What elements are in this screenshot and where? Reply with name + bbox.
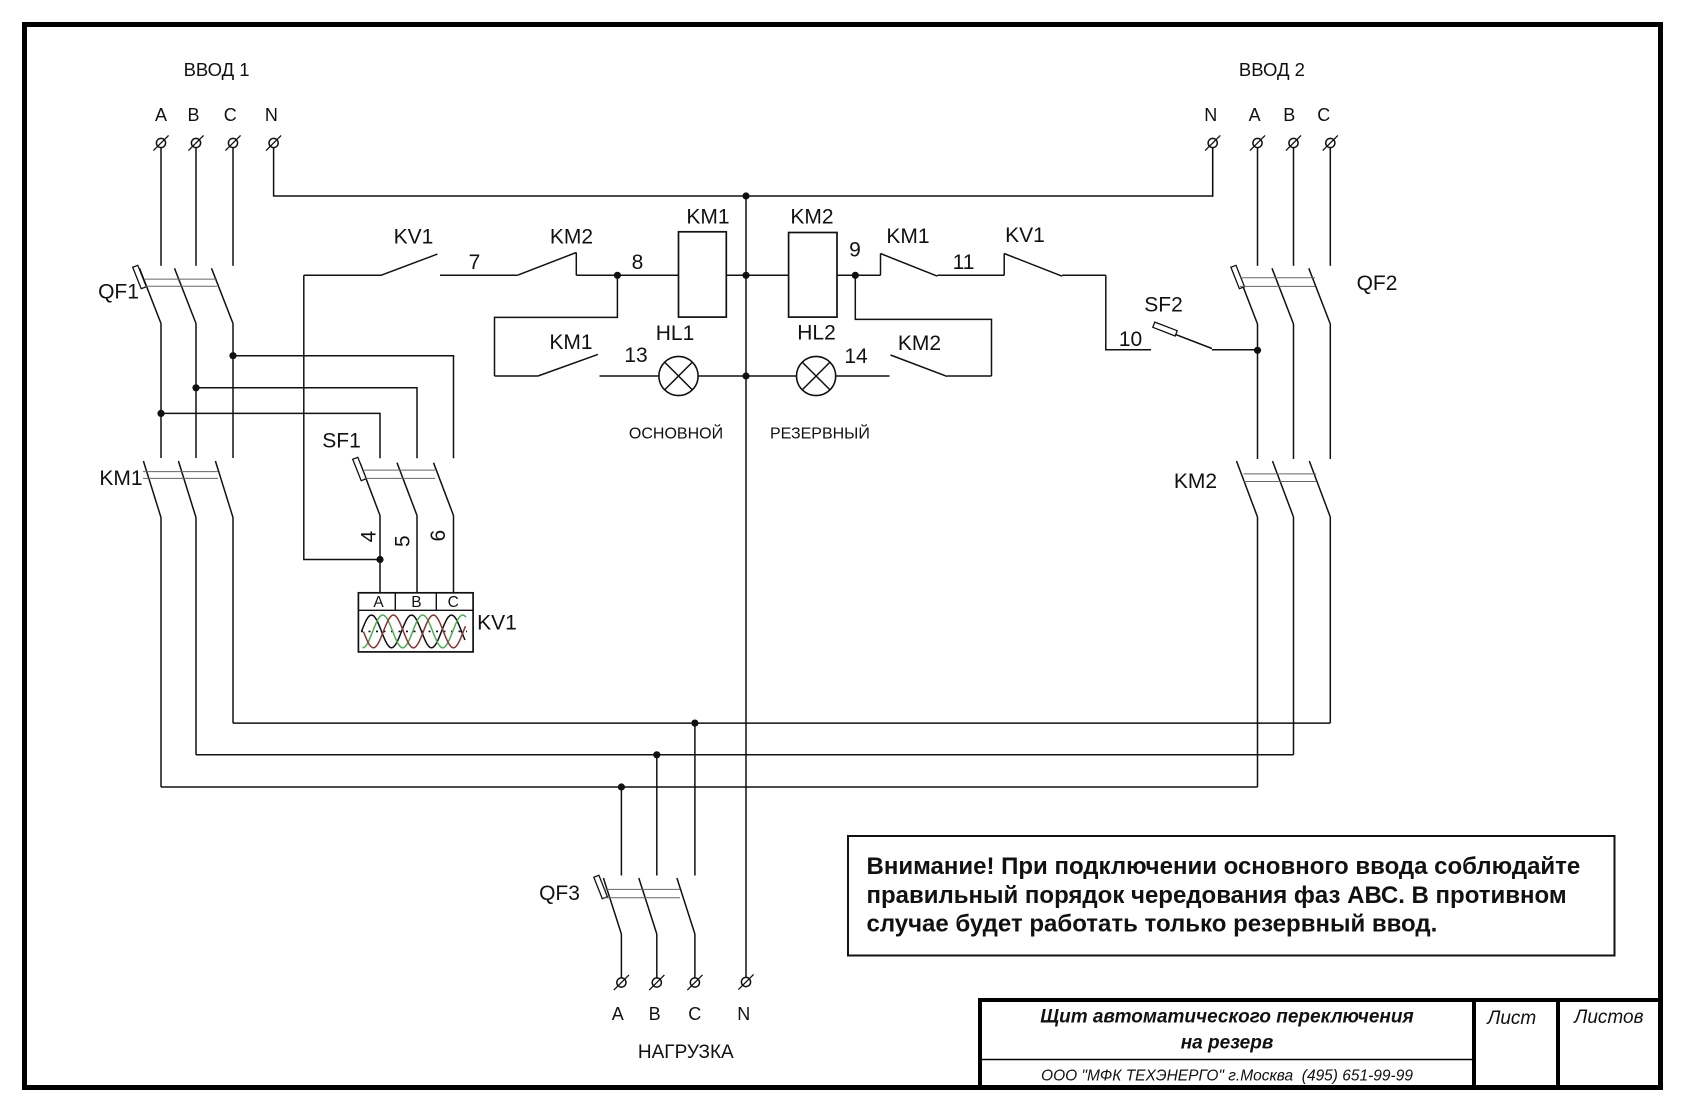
junction lamp row / N riser: [742, 372, 749, 379]
wire tap C to SF1 pole6: [233, 356, 454, 459]
svg-text:SF1: SF1: [322, 430, 361, 453]
svg-text:С: С: [448, 594, 459, 611]
svg-text:8: 8: [632, 251, 644, 274]
wire KM2-C down: [1329, 517, 1331, 723]
junction coil row / N riser: [742, 272, 749, 279]
svg-text:НАГРУЗКА: НАГРУЗКА: [638, 1042, 734, 1063]
wire tap A to SF1 pole4: [161, 413, 380, 458]
svg-text:KM2: KM2: [550, 226, 593, 249]
svg-text:KM1: KM1: [686, 206, 729, 229]
wire VVOD1-C to QF1: [232, 148, 234, 266]
wire KM2 coil to node 9: [837, 274, 881, 276]
junction QF1-A tap: [157, 410, 164, 417]
svg-text:правильный порядок чередования: правильный порядок чередования фаз АВС. …: [867, 882, 1567, 909]
wire neutral bus N: [274, 148, 1213, 196]
terminal VVOD1-B: [188, 135, 203, 150]
wire KM2-A down: [1257, 517, 1259, 787]
wire QF3-A to load: [620, 934, 622, 978]
contactor contact KM1 (NO, lamp HL1, node 13): [495, 354, 659, 376]
svg-text:KV1: KV1: [394, 226, 434, 249]
phase control relay KV1 box: [358, 593, 473, 652]
wire HL1 to HL2: [698, 375, 796, 377]
wire VVOD1-A to QF1: [160, 148, 162, 266]
svg-text:9: 9: [849, 239, 861, 262]
wire KM1 coil to N riser: [726, 274, 788, 276]
terminal VVOD2-A: [1250, 135, 1265, 150]
pin number 4: [358, 530, 381, 542]
svg-text:N: N: [737, 1004, 750, 1024]
junction bus B / QF3: [653, 751, 660, 758]
wire KM1-C down: [232, 518, 234, 724]
svg-text:QF2: QF2: [1357, 272, 1398, 295]
wire N riser (bus to load): [745, 196, 747, 977]
junction bus C / QF3: [691, 720, 698, 727]
circuit breaker QF3: [594, 875, 695, 934]
relay contact KV1 (NO, node 7): [304, 254, 518, 275]
contactor KM1 main contacts: [143, 461, 233, 518]
wire QF3-B to load: [656, 934, 658, 978]
wire VVOD2-A to QF2: [1257, 148, 1259, 266]
wire KM1-B down: [195, 518, 197, 755]
phase labels VVOD1 A B C N: [155, 105, 278, 125]
node 8 junction: [614, 272, 621, 279]
wire SF1 pole4 to KV1 box: [379, 516, 381, 593]
KV1 waveform axis: [361, 630, 467, 632]
contactor contact KM2 (NC): [517, 253, 617, 276]
wire QF1-A down: [160, 324, 162, 459]
svg-text:11: 11: [953, 251, 975, 274]
wire load bus C: [233, 722, 1330, 724]
junction SF1 pole4 / KV1 feed: [376, 556, 383, 563]
terminal load N: [738, 974, 753, 989]
svg-text:B: B: [649, 1004, 661, 1024]
svg-text:A: A: [612, 1004, 624, 1024]
svg-text:ВВОД 1: ВВОД 1: [184, 59, 250, 80]
wire QF3-B feed: [656, 755, 658, 876]
svg-text:ООО "МФК ТЕХЭНЕРГО" г.Москва: ООО "МФК ТЕХЭНЕРГО" г.Москва (495) 651-9…: [1041, 1068, 1413, 1085]
warning note box: [848, 836, 1615, 956]
svg-text:B: B: [1283, 105, 1295, 125]
terminal VVOD2-N: [1205, 135, 1220, 150]
pin number 5: [391, 535, 414, 547]
KV1 box terminals A B C: [373, 594, 458, 611]
wire QF1-C down: [232, 324, 234, 459]
KV1 waveform phase A (black): [362, 615, 466, 648]
wire QF3-A feed: [620, 787, 622, 876]
contactor contact KM2 (NO, lamp HL2, mirrored): [891, 355, 992, 376]
terminal load C: [687, 975, 702, 990]
relay contact KV1 (NC, mirrored): [1004, 254, 1106, 277]
svg-text:14: 14: [844, 345, 868, 368]
svg-text:C: C: [688, 1004, 701, 1024]
wire VVOD1-B to QF1: [195, 148, 197, 266]
coil KM1: [679, 232, 727, 317]
svg-text:N: N: [265, 105, 278, 125]
title block: [978, 998, 1661, 1088]
svg-text:KM2: KM2: [898, 332, 941, 355]
wire tap B to SF1 pole5: [196, 388, 417, 458]
wire QF1-B down: [195, 324, 197, 459]
svg-text:А: А: [373, 594, 384, 611]
svg-text:10: 10: [1119, 328, 1142, 351]
coil KM2: [789, 233, 837, 318]
svg-text:РЕЗЕРВНЫЙ: РЕЗЕРВНЫЙ: [770, 424, 870, 443]
svg-text:В: В: [411, 594, 421, 611]
svg-text:4: 4: [358, 530, 381, 542]
circuit breaker SF1: [353, 457, 454, 515]
svg-text:KM2: KM2: [790, 206, 833, 229]
junction QF1-B tap: [192, 384, 199, 391]
lamp HL1: [659, 356, 698, 395]
svg-text:Листов: Листов: [1572, 1007, 1643, 1028]
svg-text:ОСНОВНОЙ: ОСНОВНОЙ: [629, 424, 723, 443]
lamp HL2: [797, 356, 836, 395]
wire KM1-A down: [160, 518, 162, 788]
svg-text:KM1: KM1: [99, 467, 142, 490]
wire node8 to lamp branch: [495, 275, 618, 376]
svg-text:HL1: HL1: [656, 322, 695, 345]
wire load bus A: [161, 786, 1258, 788]
wire QF2-C down: [1329, 324, 1331, 459]
wire QF2-B down: [1293, 324, 1295, 459]
wire node8 to KM1 coil: [617, 274, 678, 276]
KV1 waveform phase C (red): [364, 615, 466, 648]
svg-text:KV1: KV1: [1005, 224, 1045, 247]
svg-text:Внимание! При подключении осно: Внимание! При подключении основного ввод…: [867, 853, 1581, 880]
svg-text:KM1: KM1: [886, 225, 929, 248]
svg-text:13: 13: [624, 344, 647, 367]
wire VVOD2-C to QF2: [1329, 148, 1331, 266]
wire load bus B: [196, 754, 1294, 756]
KV1 waveform phase B (green): [363, 615, 467, 648]
svg-text:B: B: [187, 105, 199, 125]
svg-text:на резерв: на резерв: [1181, 1033, 1274, 1054]
svg-text:SF2: SF2: [1144, 294, 1183, 317]
svg-text:A: A: [1249, 105, 1261, 125]
svg-text:Лист: Лист: [1485, 1008, 1536, 1029]
terminal load A: [614, 975, 629, 990]
contactor contact KM1 (NC, mirrored): [881, 254, 1005, 277]
terminal load B: [649, 975, 664, 990]
wire KM2-B down: [1293, 517, 1295, 755]
svg-text:ВВОД 2: ВВОД 2: [1239, 59, 1305, 80]
junction N-bus / N-riser: [742, 192, 749, 199]
terminal VVOD1-C: [225, 135, 240, 150]
wire SF1 pole5 to KV1 box: [416, 516, 418, 593]
breaker SF2 (single pole): [1153, 322, 1258, 350]
svg-text:C: C: [1317, 105, 1330, 125]
wire QF2-A down: [1257, 324, 1259, 459]
circuit breaker QF1: [133, 265, 233, 323]
wire QF3-C feed: [694, 723, 696, 875]
wire lamp branch to node 9: [855, 275, 991, 376]
svg-text:HL2: HL2: [797, 322, 836, 345]
pin number 6: [427, 530, 450, 542]
contactor KM2 main contacts: [1237, 461, 1331, 517]
svg-text:QF1: QF1: [98, 281, 139, 304]
wire VVOD2-N down to bus: [1212, 148, 1214, 197]
svg-text:N: N: [1204, 105, 1217, 125]
svg-text:QF3: QF3: [539, 882, 580, 905]
svg-text:случае будет работать только р: случае будет работать только резервный в…: [867, 911, 1438, 938]
svg-text:KV1: KV1: [477, 612, 517, 635]
circuit breaker QF2: [1231, 265, 1330, 324]
wire KV1 contact feed (down-left column): [304, 275, 380, 559]
svg-text:7: 7: [469, 251, 481, 274]
terminal VVOD2-B: [1286, 135, 1301, 150]
svg-text:5: 5: [391, 535, 414, 547]
svg-text:A: A: [155, 105, 167, 125]
wire node 10 drop: [1106, 275, 1151, 350]
wire QF3-C to load: [694, 934, 696, 978]
junction QF1-C tap: [229, 352, 236, 359]
terminal VVOD1-A: [153, 135, 168, 150]
svg-text:6: 6: [427, 530, 450, 542]
svg-text:Щит автоматического переключен: Щит автоматического переключения: [1040, 1007, 1413, 1028]
svg-text:KM1: KM1: [549, 331, 592, 354]
svg-text:C: C: [224, 105, 237, 125]
phase labels load A B C N: [612, 1004, 751, 1024]
phase labels VVOD2 N A B C: [1204, 105, 1330, 125]
terminal VVOD2-C: [1323, 135, 1338, 150]
node 9 junction: [852, 272, 859, 279]
junction SF2 / QF2-A: [1254, 347, 1261, 354]
wire VVOD2-B to QF2: [1293, 148, 1295, 266]
wire HL2 to KM2 contact: [836, 375, 890, 377]
junction bus A / QF3: [618, 783, 625, 790]
svg-text:KM2: KM2: [1174, 470, 1217, 493]
terminal VVOD1-N: [266, 135, 281, 150]
wire SF1 pole6 to KV1 box: [453, 516, 455, 593]
